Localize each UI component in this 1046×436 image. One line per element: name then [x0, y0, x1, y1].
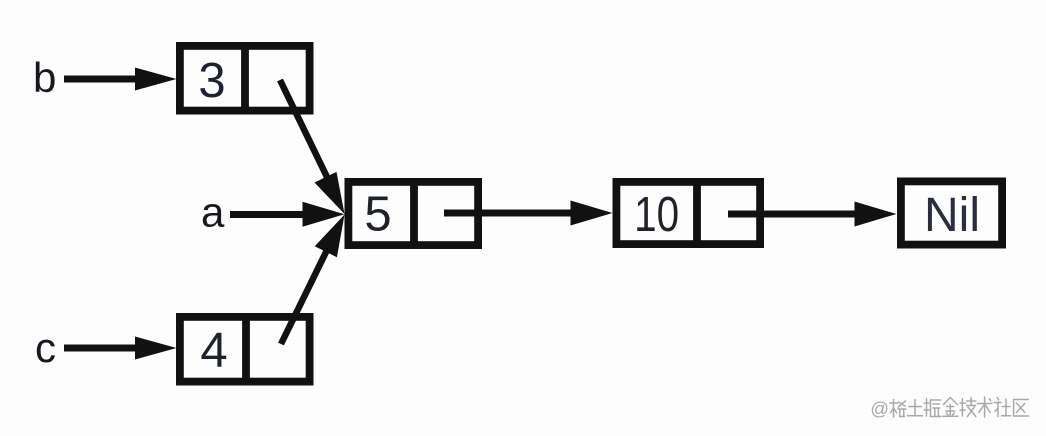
node box 3 divider [241, 42, 249, 115]
svg-text:a: a [201, 189, 225, 236]
watermark char 稀 [890, 400, 906, 418]
watermark char 社 [994, 398, 1010, 417]
svg-text:b: b [33, 54, 56, 101]
arrow from box 10 pointer cell to Nil box [728, 202, 897, 227]
svg-text:4: 4 [200, 324, 227, 378]
node box 4 divider [242, 313, 250, 386]
arrow from box 5 pointer cell to box 10 [444, 201, 613, 226]
node box 4 (outer rect) [180, 313, 310, 386]
node box 10 divider [693, 178, 701, 248]
node box 5 (outer rect) [348, 178, 478, 249]
svg-text:3: 3 [198, 54, 225, 108]
watermark char 土 [908, 400, 923, 416]
watermark char 术 [977, 397, 992, 417]
svg-text:Nil: Nil [924, 189, 980, 242]
arrow b to box 3 [64, 68, 177, 91]
watermark char 区 [1014, 400, 1029, 417]
arrow a to box 5 [230, 202, 345, 227]
arrow from box 3 pointer cell down to box 5 [280, 80, 345, 214]
arrow from box 4 pointer cell up to box 5 [281, 215, 345, 344]
node box 3 (outer rect) [180, 42, 310, 115]
Nil box [901, 181, 1002, 244]
node box 10 (outer rect) [616, 178, 760, 248]
watermark char 技 [960, 398, 976, 417]
watermark @稀土掘金技术社区 [870, 397, 1028, 419]
svg-text:c: c [35, 324, 56, 371]
svg-text:5: 5 [364, 188, 391, 242]
arrow c to box 4 [64, 337, 177, 360]
node box 5 divider [410, 178, 418, 249]
watermark char 金 [943, 398, 958, 417]
watermark char 掘 [924, 399, 941, 417]
svg-text:10: 10 [634, 188, 679, 242]
svg-text:@: @ [870, 398, 889, 419]
